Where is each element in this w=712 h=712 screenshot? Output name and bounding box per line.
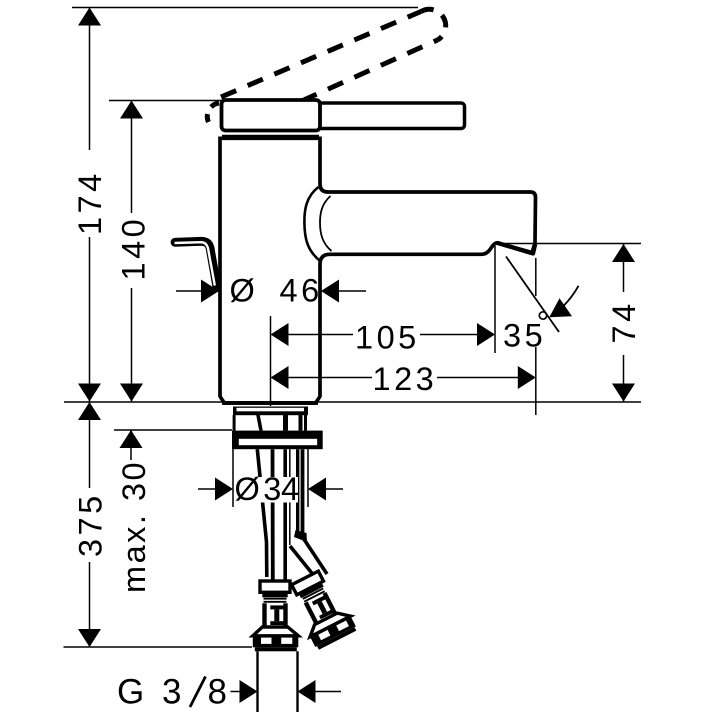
faucet body and spout outline: [220, 138, 536, 397]
studs between shelf and washer: [233, 415, 236, 431]
svg-text:74: 74: [606, 300, 642, 343]
extension line shank right: [307, 449, 309, 507]
body bottom edge: [220, 397, 320, 404]
dimension 123: [272, 377, 534, 379]
spout spray face: [497, 243, 535, 254]
svg-text:140: 140: [116, 216, 152, 281]
max30 bottom reference line: [114, 429, 232, 431]
line under handle base: [222, 135, 319, 138]
dashed raised handle end cap: [421, 9, 446, 40]
mounting shelf: [233, 407, 308, 416]
extension line handle top level: [109, 100, 222, 102]
dimension max. 30: [130, 430, 132, 460]
dimension diameter 46: [176, 290, 366, 292]
extension line shank left: [232, 449, 234, 507]
dimension diameter 34: [198, 488, 343, 490]
35 degree jet line: [506, 257, 559, 333]
right hose inner thin line: [289, 449, 291, 545]
aerator outlet reference line: [497, 243, 642, 245]
svg-text:375: 375: [73, 492, 109, 557]
spout back cap outer curve: [304, 187, 319, 261]
pipe below connector: [256, 651, 258, 712]
svg-text:°: °: [537, 305, 554, 341]
right hose connector (rotated copy): [285, 567, 357, 650]
svg-text:8: 8: [208, 673, 231, 712]
dimension 375: [89, 402, 91, 647]
extension line body centre: [270, 316, 272, 406]
svg-text:123: 123: [373, 361, 438, 397]
dashed raised handle left arc: [207, 103, 219, 122]
svg-text:Ø3: Ø3: [235, 471, 285, 507]
svg-text:46: 46: [280, 273, 323, 309]
drain rod hook: [175, 241, 217, 287]
dimension 174: [89, 8, 91, 402]
handle lever: [317, 103, 465, 129]
extension line aerator: [494, 246, 496, 353]
svg-text:4: 4: [281, 471, 303, 507]
dimension 74: [623, 244, 625, 402]
supply pipes below flange: [257, 449, 302, 581]
dimension 140: [131, 101, 133, 402]
left hose left edge: [271, 449, 275, 581]
drain rod lower part: [257, 449, 267, 577]
35 degree arc: [553, 286, 579, 316]
spout back cap inner curve: [320, 196, 332, 251]
svg-text:105: 105: [355, 320, 420, 356]
handle base: [222, 100, 321, 131]
dimension G 3/8: [231, 691, 342, 693]
countertop reference line: [64, 401, 641, 403]
extension line spout end: [535, 258, 537, 296]
text mask for diameter 34: [234, 477, 298, 503]
mounting washer flange: [232, 431, 323, 450]
left hose connector: [253, 581, 298, 651]
left hose right edge: [283, 449, 287, 581]
bottom reference line: [64, 646, 253, 648]
right hose diagonal edges: [290, 546, 315, 577]
35 degree arc arrowhead: [549, 298, 572, 317]
right hose elbow: [294, 530, 307, 542]
svg-text:max. 30: max. 30: [116, 460, 152, 593]
dashed raised handle lower edge: [302, 40, 438, 101]
svg-text:G 3: G 3: [117, 673, 185, 712]
right hose mid line: [296, 449, 299, 534]
svg-text:174: 174: [72, 170, 108, 235]
svg-text:Ø: Ø: [230, 273, 259, 309]
dashed raised handle upper edge: [221, 12, 421, 98]
dimension 105: [272, 334, 493, 336]
right hose right edge: [301, 449, 305, 536]
extension line top (handle raised tip level): [72, 7, 418, 9]
